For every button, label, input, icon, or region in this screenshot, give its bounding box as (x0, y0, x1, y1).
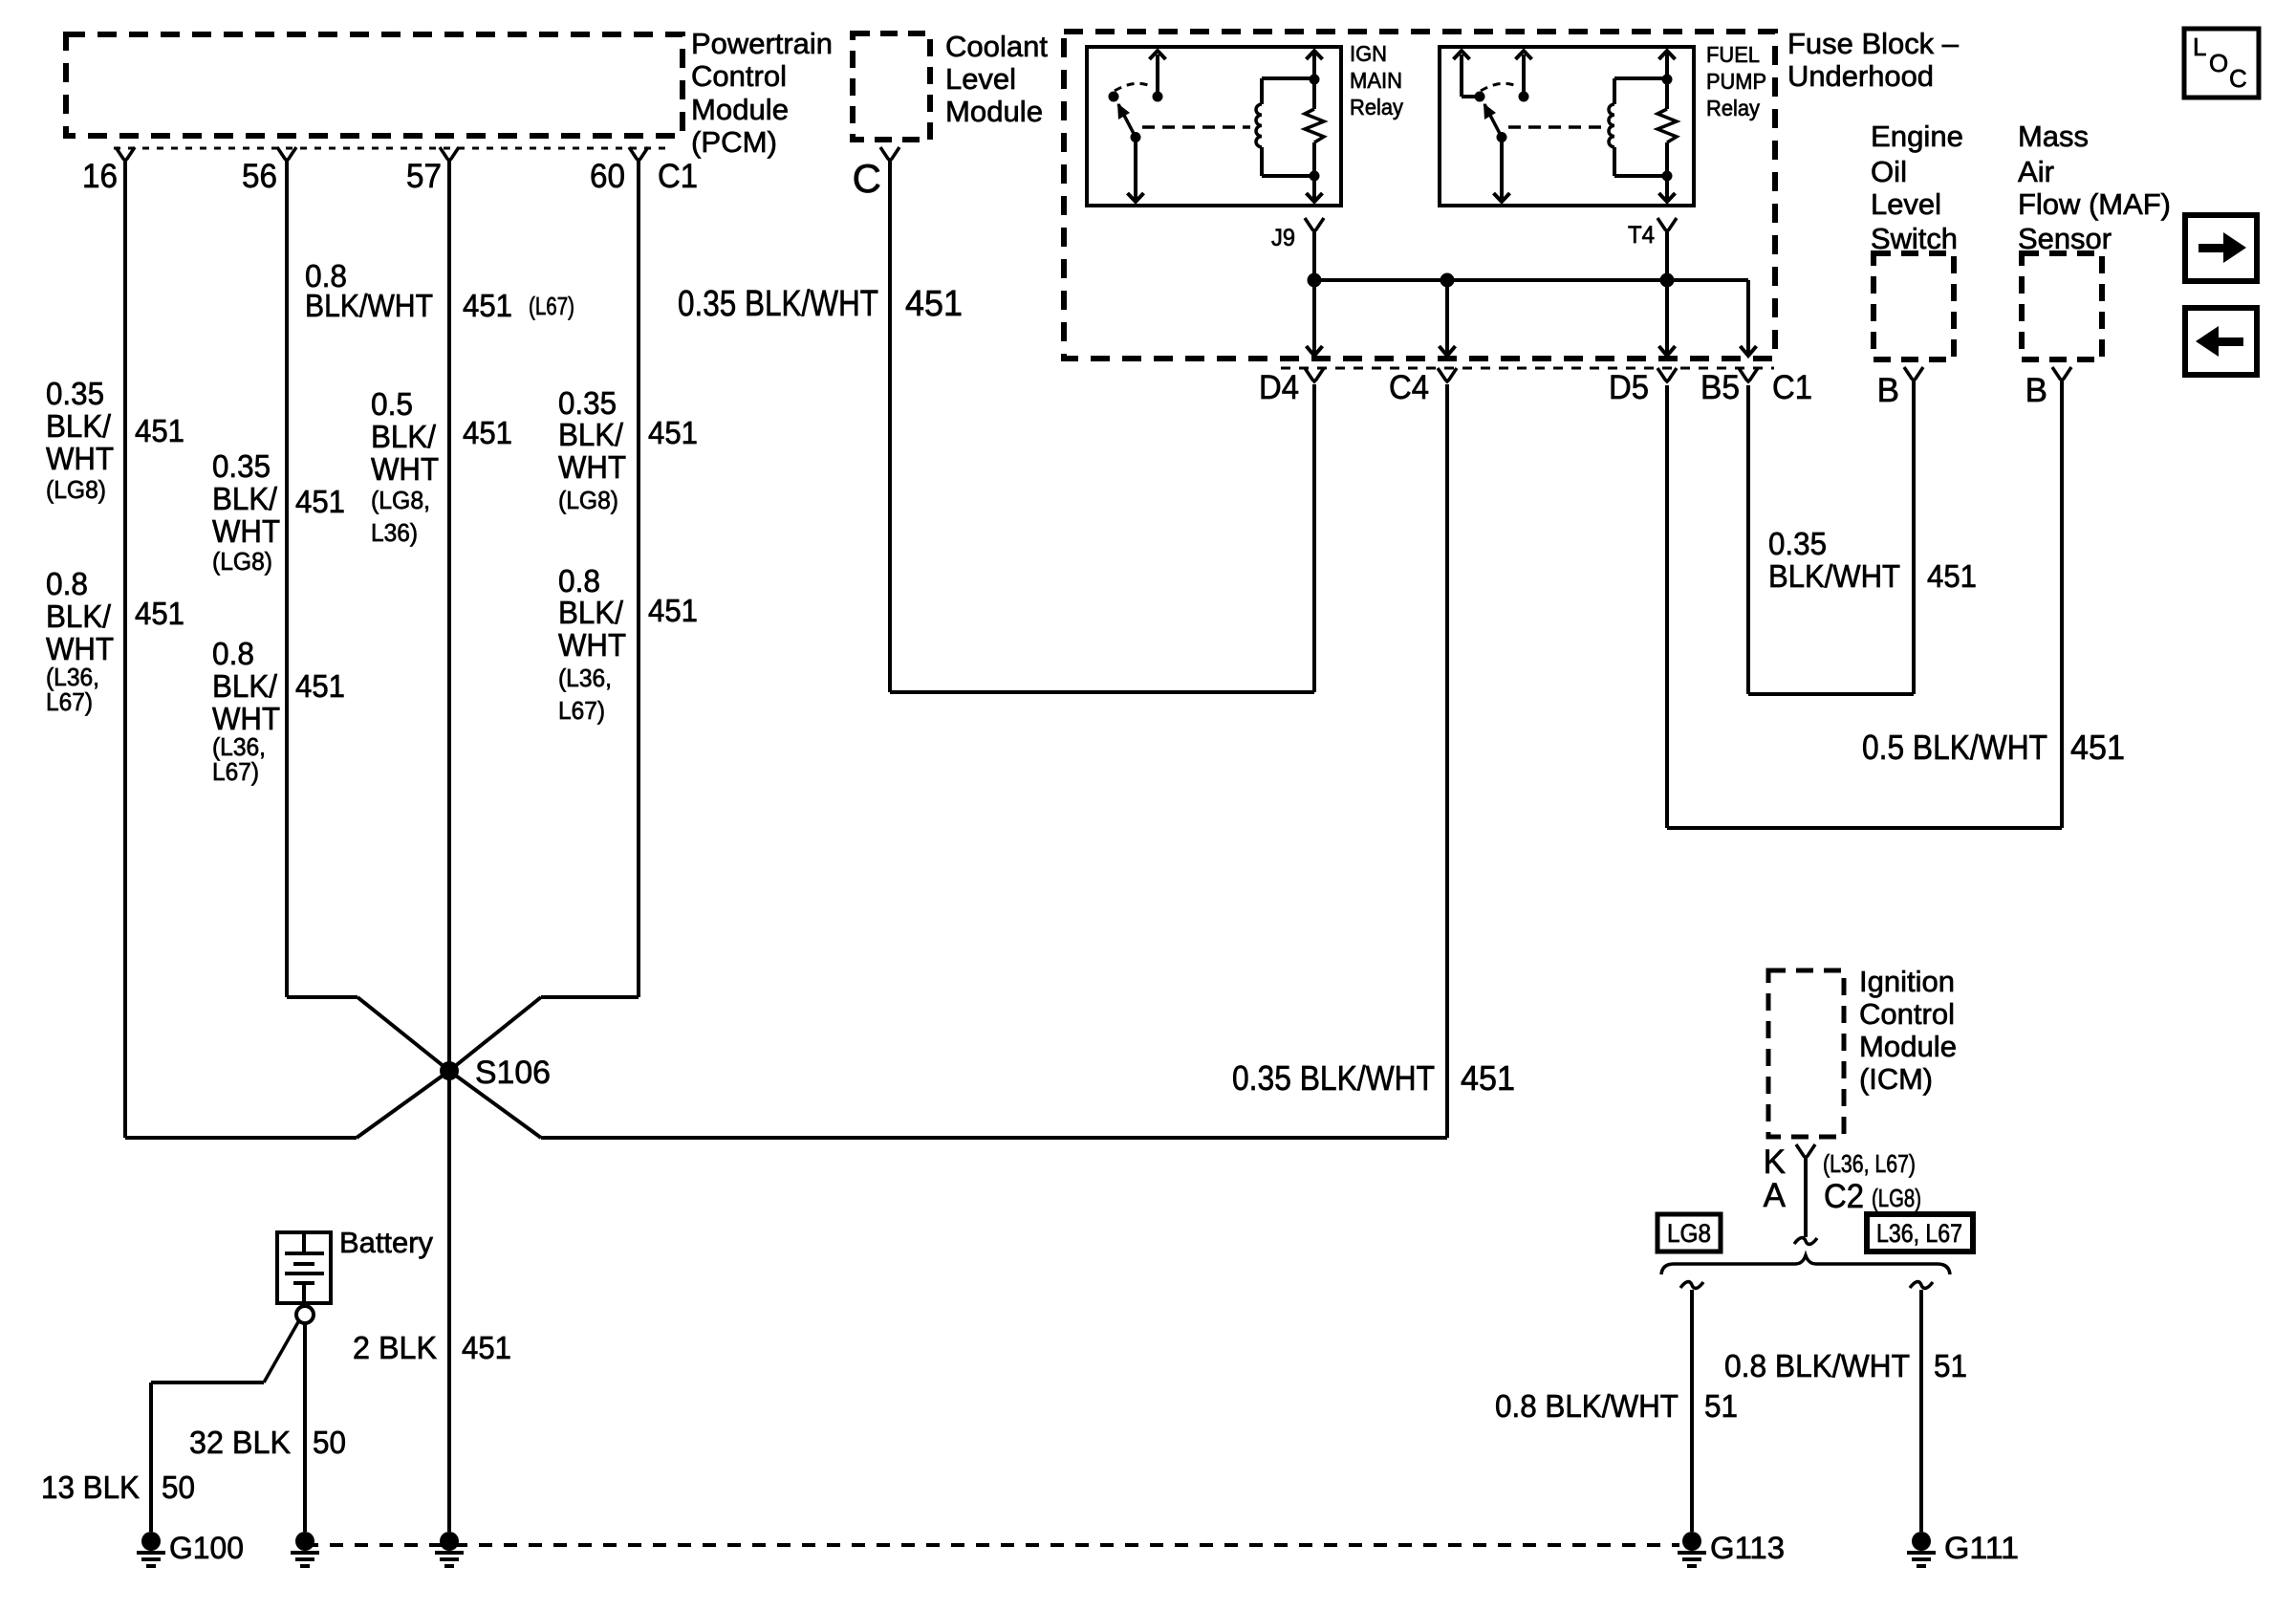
svg-text:57: 57 (406, 158, 442, 195)
svg-text:Fuse Block –: Fuse Block – (1787, 27, 1960, 60)
svg-text:16: 16 (82, 158, 118, 195)
svg-text:451: 451 (1461, 1058, 1515, 1098)
svg-text:0.5 BLK/WHT: 0.5 BLK/WHT (1862, 728, 2047, 767)
svg-text:WHT: WHT (212, 701, 280, 736)
svg-text:D5: D5 (1609, 369, 1649, 406)
svg-text:451: 451 (463, 415, 512, 450)
svg-text:51: 51 (1934, 1348, 1967, 1383)
svg-text:D4: D4 (1259, 369, 1299, 406)
svg-text:Underhood: Underhood (1787, 59, 1934, 93)
svg-text:60: 60 (590, 158, 625, 195)
svg-text:BLK/WHT: BLK/WHT (305, 288, 433, 323)
svg-text:L67): L67) (558, 696, 605, 725)
svg-text:Level: Level (1871, 187, 1941, 221)
svg-text:0.8: 0.8 (558, 563, 600, 599)
svg-text:BLK/: BLK/ (558, 417, 624, 452)
svg-text:451: 451 (905, 284, 963, 324)
svg-text:Flow (MAF): Flow (MAF) (2018, 187, 2171, 221)
svg-text:Control: Control (1859, 997, 1955, 1031)
svg-text:WHT: WHT (371, 451, 439, 487)
svg-text:451: 451 (463, 288, 512, 323)
svg-text:L67): L67) (46, 687, 93, 716)
svg-text:FUEL: FUEL (1706, 42, 1760, 67)
svg-text:WHT: WHT (46, 631, 114, 666)
svg-text:0.8: 0.8 (46, 566, 88, 601)
svg-text:32 BLK: 32 BLK (189, 1425, 291, 1460)
svg-text:LG8: LG8 (1667, 1219, 1711, 1248)
svg-text:L: L (2193, 33, 2206, 61)
svg-text:Relay: Relay (1350, 95, 1403, 120)
svg-text:Module: Module (691, 93, 789, 126)
svg-text:L36): L36) (371, 518, 418, 547)
svg-text:451: 451 (295, 668, 345, 704)
svg-text:BLK/: BLK/ (46, 408, 112, 444)
svg-text:IGN: IGN (1350, 41, 1387, 66)
svg-text:(LG8): (LG8) (212, 547, 272, 576)
svg-text:0.8 BLK/WHT: 0.8 BLK/WHT (1495, 1388, 1679, 1424)
svg-text:451: 451 (135, 413, 184, 448)
svg-text:C1: C1 (658, 158, 698, 195)
svg-text:0.8: 0.8 (212, 636, 254, 671)
svg-text:51: 51 (1704, 1388, 1738, 1424)
svg-text:C: C (2229, 64, 2247, 93)
svg-text:(L36,: (L36, (558, 664, 612, 692)
svg-text:0.5: 0.5 (371, 386, 413, 422)
svg-text:451: 451 (648, 593, 698, 628)
svg-text:C4: C4 (1389, 369, 1429, 406)
svg-text:WHT: WHT (558, 449, 626, 485)
svg-text:G113: G113 (1710, 1531, 1785, 1565)
svg-text:B5: B5 (1700, 369, 1740, 406)
svg-text:451: 451 (2070, 728, 2125, 767)
svg-text:0.35: 0.35 (212, 448, 271, 484)
svg-text:Oil: Oil (1871, 155, 1907, 188)
svg-text:0.8 BLK/WHT: 0.8 BLK/WHT (1724, 1348, 1910, 1383)
svg-text:BLK/: BLK/ (558, 595, 624, 630)
svg-text:WHT: WHT (46, 441, 114, 476)
svg-text:BLK/: BLK/ (212, 668, 278, 704)
svg-text:0.35 BLK/WHT: 0.35 BLK/WHT (678, 284, 878, 324)
svg-text:(L36, L67): (L36, L67) (1823, 1149, 1916, 1178)
svg-text:(L67): (L67) (529, 292, 574, 320)
svg-text:C1: C1 (1772, 369, 1812, 406)
svg-text:451: 451 (135, 596, 184, 631)
svg-text:Control: Control (691, 59, 787, 93)
svg-text:0.35: 0.35 (1768, 526, 1827, 561)
svg-text:Module: Module (1859, 1030, 1957, 1063)
svg-text:13 BLK: 13 BLK (41, 1469, 140, 1505)
svg-text:(LG8): (LG8) (558, 486, 618, 514)
svg-text:451: 451 (1927, 558, 1977, 594)
svg-text:451: 451 (648, 415, 698, 450)
svg-text:BLK/: BLK/ (371, 419, 437, 454)
svg-text:PUMP: PUMP (1706, 69, 1766, 94)
svg-text:Coolant: Coolant (945, 30, 1048, 63)
svg-text:0.35 BLK/WHT: 0.35 BLK/WHT (1232, 1058, 1435, 1098)
svg-text:(LG8): (LG8) (1872, 1184, 1921, 1212)
svg-text:L67): L67) (212, 757, 259, 786)
svg-text:MAIN: MAIN (1350, 68, 1402, 93)
svg-text:WHT: WHT (558, 627, 626, 663)
svg-text:0.35: 0.35 (46, 376, 104, 411)
svg-text:(LG8): (LG8) (46, 475, 106, 504)
svg-text:B: B (2025, 372, 2047, 409)
svg-text:(PCM): (PCM) (691, 125, 777, 159)
svg-text:0.35: 0.35 (558, 385, 617, 421)
svg-text:2 BLK: 2 BLK (353, 1330, 437, 1365)
svg-text:O: O (2209, 49, 2228, 77)
svg-text:(ICM): (ICM) (1859, 1062, 1933, 1096)
svg-text:BLK/: BLK/ (46, 599, 112, 634)
svg-text:Battery: Battery (339, 1226, 433, 1259)
svg-text:Mass: Mass (2018, 120, 2089, 153)
svg-text:J9: J9 (1271, 225, 1295, 251)
svg-text:C: C (853, 156, 881, 201)
svg-text:Air: Air (2018, 155, 2054, 188)
svg-text:451: 451 (462, 1330, 511, 1365)
svg-text:Ignition: Ignition (1859, 965, 1955, 998)
svg-text:G100: G100 (169, 1531, 244, 1565)
svg-text:Sensor: Sensor (2018, 222, 2112, 255)
svg-text:Engine: Engine (1871, 120, 1963, 153)
svg-text:G111: G111 (1944, 1531, 2019, 1565)
svg-text:Level: Level (945, 62, 1016, 96)
svg-text:50: 50 (162, 1469, 195, 1505)
svg-text:50: 50 (313, 1425, 346, 1460)
svg-text:BLK/WHT: BLK/WHT (1768, 558, 1900, 594)
svg-text:Switch: Switch (1871, 222, 1958, 255)
svg-text:WHT: WHT (212, 513, 280, 549)
svg-text:T4: T4 (1628, 222, 1655, 249)
svg-text:56: 56 (242, 158, 277, 195)
svg-text:Relay: Relay (1706, 96, 1760, 120)
svg-text:B: B (1877, 372, 1899, 409)
svg-text:C2: C2 (1824, 1178, 1864, 1215)
svg-text:A: A (1764, 1177, 1787, 1214)
svg-text:L36, L67: L36, L67 (1876, 1219, 1962, 1248)
svg-text:Powertrain: Powertrain (691, 27, 833, 60)
svg-text:K: K (1764, 1143, 1786, 1181)
svg-text:Module: Module (945, 95, 1043, 128)
svg-text:BLK/: BLK/ (212, 481, 278, 516)
svg-text:S106: S106 (475, 1055, 551, 1091)
svg-text:(LG8,: (LG8, (371, 486, 430, 514)
svg-text:451: 451 (295, 484, 345, 519)
